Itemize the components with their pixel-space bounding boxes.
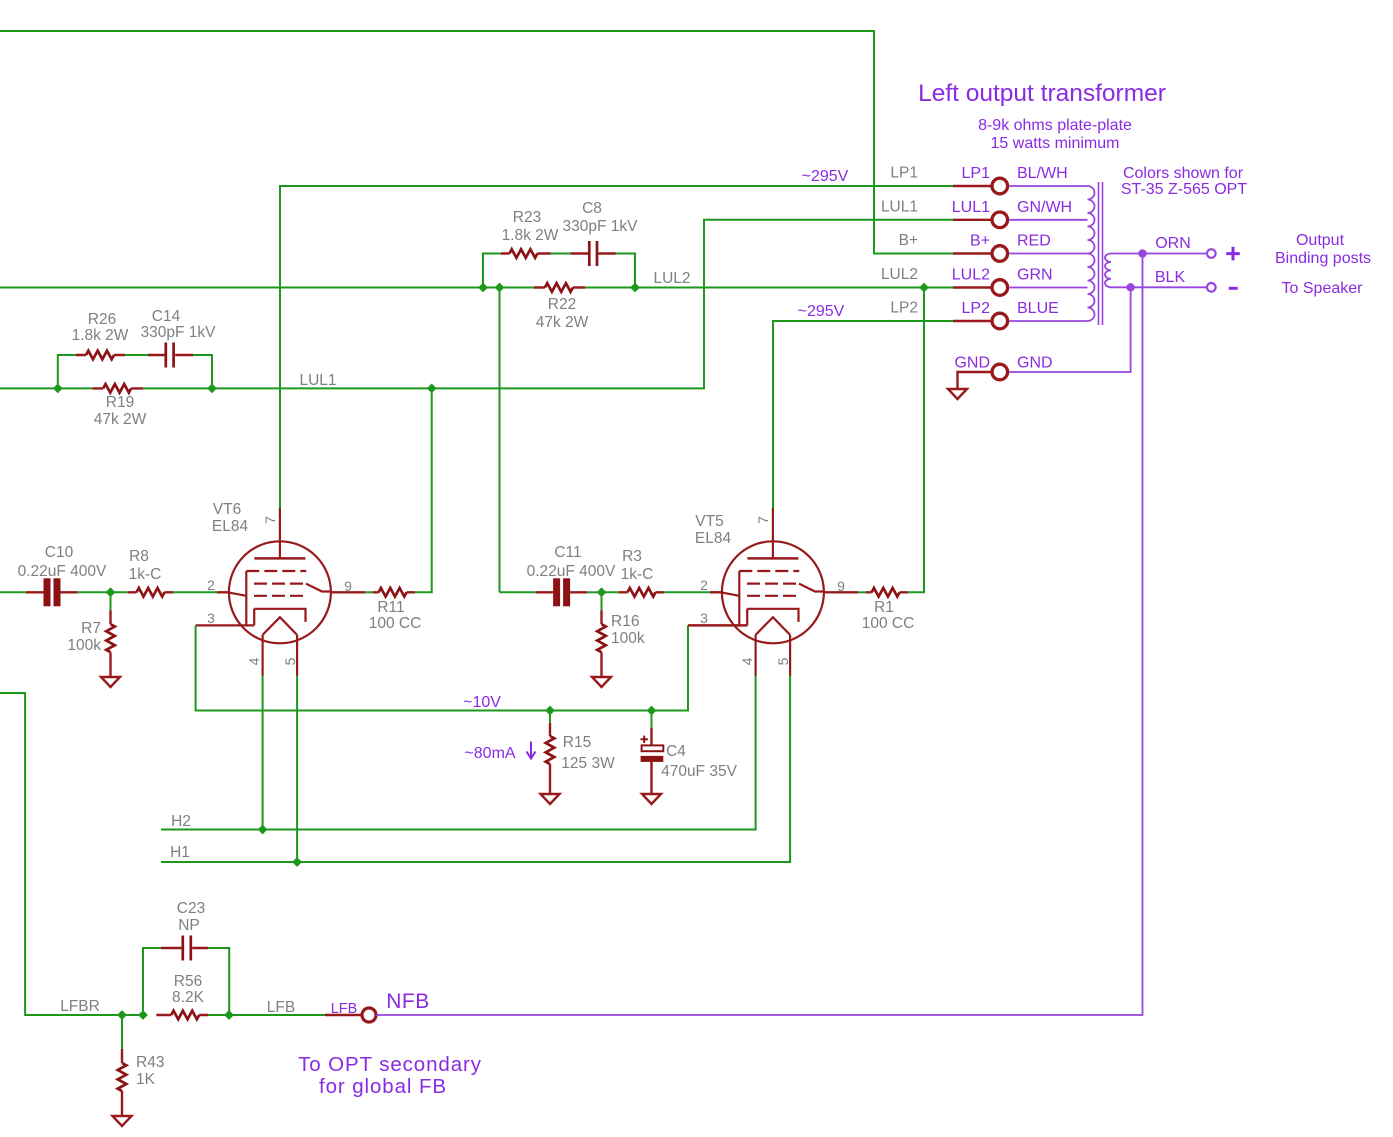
wire R56 right to LFB	[208, 1014, 229, 1016]
junction LUL1/R26 branch right	[207, 384, 217, 394]
wire VT6 pin 3 lead	[194, 624, 196, 626]
svg-text:Colors shown for: Colors shown for	[1123, 165, 1244, 182]
svg-text:1k-C: 1k-C	[621, 566, 654, 583]
resistor R7 100k lead wire	[110, 592, 112, 610]
wire BLK junction to GND terminal	[1009, 287, 1130, 372]
wire R11 to LUL1 riser	[415, 388, 432, 592]
capacitor C11 0.22uF 400V leads	[536, 591, 588, 593]
svg-text:125 3W: 125 3W	[561, 755, 615, 772]
wire riser LUL2 to R1	[908, 288, 924, 593]
node LP2 terminal circle	[992, 313, 1008, 329]
junction R56-C23 right	[224, 1010, 234, 1020]
capacitor C8 330pF 1kV	[571, 252, 616, 254]
capacitor C4 470uF 35V	[650, 728, 652, 794]
svg-text:~10V: ~10V	[463, 694, 501, 711]
svg-text:LP1: LP1	[962, 165, 991, 182]
junction cathode/R15	[545, 706, 555, 716]
wire VT5 pin 2 lead	[710, 591, 722, 593]
capacitor C10 0.22uF 400V leads	[26, 591, 78, 593]
svg-text:1K: 1K	[136, 1071, 156, 1088]
svg-text:LUL2: LUL2	[881, 266, 918, 283]
capacitor C23 NP	[161, 947, 208, 949]
svg-text:330pF 1kV: 330pF 1kV	[563, 218, 639, 235]
resistor R3 1k-C body	[619, 591, 664, 593]
junction LUL1/R26 branch left	[53, 384, 63, 394]
junction node C11/R16/R3	[597, 587, 607, 597]
resistor R8 1k-C body	[128, 591, 173, 593]
ground below C4	[642, 794, 661, 804]
junction cathode/C4	[647, 706, 657, 716]
wire LUL1 terminal lead	[953, 219, 991, 221]
resistor R1 100 CC	[866, 591, 909, 593]
junction LFBR/R43	[117, 1010, 127, 1020]
wire pin9 to R11	[365, 591, 373, 593]
wire R3 to VT5 grid pin 2	[664, 591, 710, 593]
wire VT5 pin 9 lead	[824, 591, 858, 593]
wire pin9 to R1	[858, 591, 866, 593]
symbol plus	[1226, 247, 1240, 261]
node GND terminal circle	[992, 364, 1008, 380]
svg-text:Binding posts: Binding posts	[1275, 250, 1371, 267]
wire VT6 pin 2 lead	[217, 591, 229, 593]
wire VT5 pin 3 lead	[688, 624, 747, 626]
node LUL2 terminal circle	[992, 280, 1008, 296]
ground below GND terminal	[948, 389, 967, 399]
svg-text:0.22uF 400V: 0.22uF 400V	[18, 563, 107, 580]
junction LUL2/R1 riser	[919, 283, 929, 293]
svg-text:GN/WH: GN/WH	[1017, 199, 1072, 216]
resistor R15 125 3W lead wire	[549, 711, 551, 724]
svg-text:LUL2: LUL2	[952, 267, 990, 284]
tube VT5 EL84	[689, 508, 846, 676]
svg-text:C23: C23	[177, 900, 205, 917]
wire LUL1 terminal to winding	[1009, 219, 1087, 221]
resistor R3 1k-C lead wire	[602, 591, 619, 593]
svg-text:47k 2W: 47k 2W	[94, 411, 147, 428]
svg-text:Left output transformer: Left output transformer	[918, 80, 1166, 107]
svg-text:LP2: LP2	[962, 300, 991, 317]
capacitor C4 top wire	[651, 711, 653, 729]
svg-text:100k: 100k	[611, 630, 645, 647]
wire VT6 pin 9 lead	[331, 591, 365, 593]
svg-text:LUL1: LUL1	[299, 372, 336, 389]
svg-text:47k 2W: 47k 2W	[536, 314, 589, 331]
svg-text:R19: R19	[106, 394, 134, 411]
svg-text:1k-C: 1k-C	[129, 566, 162, 583]
svg-text:BLUE: BLUE	[1017, 300, 1059, 317]
svg-text:R8: R8	[129, 548, 149, 565]
ground below R43	[113, 1116, 132, 1126]
wire VT6 pin 4 to H2	[262, 676, 264, 830]
wire R26/C14 branch left riser	[58, 355, 76, 388]
svg-text:0.22uF 400V: 0.22uF 400V	[527, 563, 616, 580]
wire H2 rail	[161, 676, 756, 830]
svg-text:To Speaker: To Speaker	[1282, 280, 1364, 297]
junction H2/VT6 pin4	[258, 825, 268, 835]
svg-text:~295V: ~295V	[802, 168, 849, 185]
svg-text:R26: R26	[88, 311, 116, 328]
junction LUL1/R11 riser	[427, 384, 437, 394]
wire LUL1 net: transformer LUL1 terminal to left network	[0, 220, 953, 389]
svg-text:8-9k ohms plate-plate: 8-9k ohms plate-plate	[978, 117, 1132, 134]
resistor R8 1k-C lead wire	[111, 591, 128, 593]
wire B+ net from off-page to transformer B+ terminal	[0, 31, 953, 254]
wire NFB to OPT secondary plus	[376, 254, 1142, 1016]
svg-text:BLK: BLK	[1155, 269, 1186, 286]
ground below R16	[592, 677, 611, 687]
svg-text:LFBR: LFBR	[60, 998, 100, 1015]
transformer core	[1099, 182, 1103, 325]
svg-text:GND: GND	[1017, 355, 1053, 372]
svg-text:H1: H1	[170, 844, 190, 861]
svg-text:LUL2: LUL2	[653, 270, 690, 287]
wire C23 branch right riser	[208, 948, 229, 1015]
junction LUL2/C8 branch right	[630, 283, 640, 293]
wire C11 to R16/R3 junction	[587, 591, 601, 593]
resistor R26 1.8k 2W	[76, 354, 125, 356]
wire NFB terminal lead	[325, 1014, 362, 1016]
wire LP1 net: VT6 plate to transformer LP1 terminal	[280, 186, 953, 508]
wire LUL2 terminal to winding	[1009, 287, 1087, 289]
wire riser LUL2 to C11	[499, 288, 501, 593]
node LP1 terminal circle	[992, 178, 1008, 194]
svg-text:BL/WH: BL/WH	[1017, 165, 1068, 182]
wire B+ terminal to winding	[1009, 253, 1087, 255]
resistor R16 100k lead wire	[601, 592, 603, 610]
wire LFBR net from off-page	[0, 693, 143, 1015]
svg-text:100 CC: 100 CC	[862, 615, 915, 632]
wire R26/C14 branch right segment	[193, 355, 212, 388]
svg-text:R3: R3	[622, 548, 642, 565]
svg-text:ST-35 Z-565 OPT: ST-35 Z-565 OPT	[1121, 181, 1247, 198]
svg-text:R16: R16	[611, 613, 639, 630]
svg-text:GRN: GRN	[1017, 267, 1053, 284]
wire secondary plus to binding post	[1111, 253, 1207, 255]
svg-text:EL84: EL84	[695, 530, 732, 547]
wire LP1 terminal to winding	[1009, 185, 1087, 187]
svg-text:for global FB: for global FB	[319, 1075, 447, 1098]
svg-text:R11: R11	[377, 599, 404, 616]
wire C10 to R7/R8 junction	[78, 591, 111, 593]
resistor R19 47k 2W	[92, 387, 143, 389]
resistor R7 100k body	[109, 610, 111, 677]
resistor R56 8.2K	[156, 1014, 208, 1016]
resistor R23 1.8k 2W	[501, 252, 551, 254]
ground below R15	[541, 794, 560, 804]
svg-text:100k: 100k	[67, 637, 101, 654]
wire LP1 terminal lead	[953, 185, 991, 187]
junction H1/VT6 pin5	[292, 857, 302, 867]
svg-text:1.8k 2W: 1.8k 2W	[502, 227, 559, 244]
resistor R15 125 3W body	[549, 723, 551, 794]
wire R23/C8 branch left riser	[483, 254, 501, 288]
svg-text:1.8k 2W: 1.8k 2W	[72, 327, 129, 344]
junction ORN/NFB	[1138, 249, 1146, 257]
svg-text:100 CC: 100 CC	[369, 615, 422, 632]
svg-text:C11: C11	[554, 544, 581, 561]
svg-text:VT5: VT5	[695, 513, 723, 530]
junction BLK/GND	[1126, 283, 1134, 291]
svg-text:EL84: EL84	[212, 518, 249, 535]
svg-text:ORN: ORN	[1155, 235, 1191, 252]
svg-text:B+: B+	[970, 233, 990, 250]
svg-text:C8: C8	[582, 200, 602, 217]
wire LP2 net: VT5 plate to transformer LP2 terminal	[773, 321, 953, 508]
svg-text:~80mA: ~80mA	[464, 745, 515, 762]
svg-text:R7: R7	[81, 620, 101, 637]
svg-text:470uF 35V: 470uF 35V	[661, 763, 737, 780]
wire input to C10	[0, 591, 26, 593]
svg-text:VT6: VT6	[213, 501, 241, 518]
wire B+ terminal lead	[953, 252, 991, 254]
wire LUL2 riser to C11 left	[500, 591, 536, 593]
transformer primary winding	[1088, 186, 1095, 321]
wire GND terminal to ground	[958, 372, 991, 389]
wire secondary minus to binding post	[1111, 286, 1207, 288]
wire LUL2 terminal lead	[953, 286, 991, 288]
svg-text:C4: C4	[666, 743, 686, 760]
resistor R11 100 CC	[373, 591, 416, 593]
node B+ terminal circle	[992, 246, 1008, 262]
svg-text:R23: R23	[513, 209, 541, 226]
svg-text:330pF 1kV: 330pF 1kV	[141, 324, 217, 341]
wire LFB to NFB terminal	[229, 1014, 325, 1016]
svg-text:15 watts minimum: 15 watts minimum	[991, 135, 1120, 152]
resistor R16 100k body	[600, 610, 602, 677]
svg-text:To OPT secondary: To OPT secondary	[298, 1053, 482, 1076]
svg-text:R56: R56	[174, 973, 202, 990]
wire LP2 terminal to winding	[1009, 320, 1087, 322]
svg-text:NP: NP	[178, 917, 200, 934]
node LUL1 terminal circle	[992, 212, 1008, 228]
node binding post minus	[1207, 283, 1216, 292]
resistor R43 1K body	[121, 1049, 123, 1116]
svg-text:LUL1: LUL1	[881, 198, 918, 215]
svg-text:RED: RED	[1017, 233, 1051, 250]
symbol minus	[1229, 287, 1238, 290]
wire LP2 terminal lead	[953, 320, 991, 322]
junction LUL2/R23 branch left	[478, 283, 488, 293]
wire R23/C8 branch right segment	[616, 254, 635, 288]
svg-text:8.2K: 8.2K	[172, 989, 205, 1006]
svg-text:NFB: NFB	[386, 990, 430, 1013]
wire LUL2 net: transformer LUL2 terminal across page	[0, 287, 953, 289]
junction node C10/R7/R8	[106, 587, 116, 597]
label current arrow	[527, 742, 536, 759]
svg-text:B+: B+	[899, 232, 918, 249]
wire C23 branch left riser	[143, 948, 161, 1015]
transformer secondary winding	[1105, 254, 1111, 288]
svg-text:C10: C10	[45, 544, 74, 561]
svg-text:LP1: LP1	[890, 165, 918, 182]
resistor R22 47k 2W	[534, 286, 585, 288]
svg-text:~295V: ~295V	[798, 303, 845, 320]
svg-text:R22: R22	[548, 296, 576, 313]
node binding post plus	[1207, 249, 1216, 258]
junction LUL2/C11 riser	[495, 283, 505, 293]
resistor R43 1K lead wire	[121, 1015, 123, 1049]
capacitor C14 330pF 1kV	[148, 354, 193, 356]
tube VT6 EL84	[196, 508, 353, 676]
svg-text:R43: R43	[136, 1054, 164, 1071]
svg-text:GND: GND	[954, 355, 990, 372]
svg-text:LFB: LFB	[267, 999, 295, 1016]
svg-text:R1: R1	[874, 599, 894, 616]
wire cathode rail ~10V	[196, 625, 688, 710]
wire H1 rail	[161, 676, 790, 862]
svg-text:Output: Output	[1296, 232, 1345, 249]
svg-text:LUL1: LUL1	[952, 199, 990, 216]
node NFB terminal circle	[362, 1008, 376, 1022]
capacitor C10 0.22uF 400V	[44, 578, 51, 606]
svg-text:C14: C14	[152, 308, 181, 325]
svg-text:H2: H2	[171, 813, 191, 830]
junction LFBR/R56-C23 left	[138, 1010, 148, 1020]
wire R23/C8 branch mid segment	[551, 253, 571, 255]
capacitor C11 0.22uF 400V	[553, 578, 560, 606]
svg-text:LP2: LP2	[890, 300, 918, 317]
svg-text:R15: R15	[563, 734, 591, 751]
ground below R7	[101, 677, 120, 687]
wire VT6 pin 5 to H1	[296, 676, 298, 862]
wire R26/C14 branch mid segment	[125, 354, 148, 356]
wire R8 to VT6 grid pin 2	[173, 591, 217, 593]
